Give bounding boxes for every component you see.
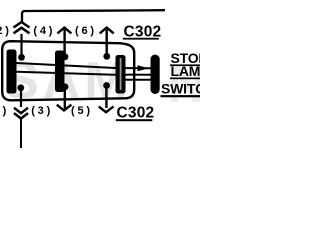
arrow into switch [138,65,150,71]
stop lamp switch body [151,55,160,95]
wire pin 1 continuation [20,119,22,148]
svg-text:(2): (2) [0,25,12,37]
off-page chevrons pin 1 bottom [14,108,28,119]
svg-text:(5): (5) [71,105,93,117]
terminal bar pins 4-3 [55,51,65,93]
svg-text:(6): (6) [75,25,97,37]
wire pin 2 into connector [20,34,22,56]
wire top rail from pin 2 [22,10,165,22]
arrow pin 3 down with wire [57,88,72,111]
wire pin 1 below with chevrons [20,89,22,107]
junction pin 1 [17,84,24,91]
svg-text:(3): (3) [31,105,53,117]
arrow pin 4 up with wire [57,28,71,56]
off-page chevrons pin 2 top [14,22,30,33]
svg-text:LAMP: LAMP [171,63,201,79]
arrow pin 5 down with wire [99,87,114,112]
svg-text:C302: C302 [117,105,155,122]
connector C302 box [2,41,134,100]
junction pin 2 [18,54,25,61]
svg-text:SAM: SAM [4,52,132,110]
svg-text:(4): (4) [33,25,55,37]
terminal bar pins 2-1 [7,50,17,94]
label STOP LAMP SWITCH [161,50,216,97]
bus wire C [122,79,151,81]
junction pin 6 [103,53,110,60]
junction pin 4 [62,53,69,60]
junction pin 3 [62,83,69,90]
svg-text:SWITCH: SWITCH [161,81,200,97]
bus wire A [17,63,151,68]
terminal bar pins 6-5 [116,55,126,94]
svg-text:(1): (1) [0,105,9,117]
junction pin 5 [103,82,110,89]
bus wire B [17,72,151,75]
arrow pin 6 up with wire [100,28,114,56]
